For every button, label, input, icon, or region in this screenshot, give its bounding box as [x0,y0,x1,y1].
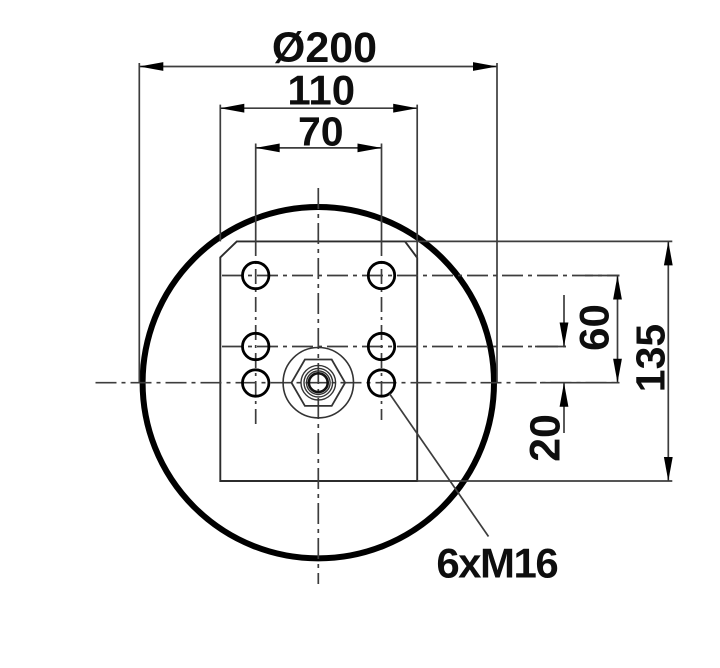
stud bore circle [309,373,328,392]
thread circle outer [301,365,336,400]
flange outer circle Ø200 [143,207,494,558]
dim 20 line upper segment [563,295,565,347]
svg-text:110: 110 [287,67,355,114]
dim 70 line [256,147,382,149]
dim Ø200 line [139,66,497,68]
svg-text:70: 70 [298,109,344,155]
hole column centerline left (also 70 extension) [255,144,257,242]
bolt hole mid-right [368,333,394,359]
dim 110 arrow left [220,104,244,113]
dim 135 line [667,241,669,481]
vertical centerline (main axis) [317,188,319,584]
dim 60 arrow top [613,276,622,300]
leader line to bolt hole [390,394,489,537]
central boss circle [283,348,353,418]
mounting plate outline (chamfered top corners) [220,241,417,481]
dim 110 arrow right [393,104,417,113]
dim Ø200 extension line right [496,63,498,383]
dim 20 line lower segment [563,383,565,433]
centerline row 1 (top holes) [222,275,620,277]
dim 110 extension line left [219,105,221,242]
bolt hole mid-left [243,333,269,359]
dim 70 arrow left [256,144,280,153]
svg-text:Ø200: Ø200 [272,24,377,72]
bolt hole top-left [243,262,269,288]
dim 135 extension line top (plate top edge extended) [405,240,672,242]
dim 60 line [617,276,619,383]
hole column centerline right (also 70 extension) [381,144,383,242]
bolt hole bottom-right [368,370,394,396]
svg-text:60: 60 [571,304,618,351]
dim 135 arrow bottom [664,457,673,481]
dim 70 arrow right [358,144,382,153]
dim 20 arrow upper (points down to row2) [560,323,569,347]
centerline row 2 (middle holes) [222,346,566,348]
dim 60 arrow bottom [613,359,622,383]
hex nut [292,360,346,406]
dim 110 line [220,107,417,109]
svg-text:135: 135 [628,324,674,392]
thread circle inner [307,371,331,395]
thread circle middle [304,368,333,397]
dim 135 arrow top [664,241,673,265]
dim Ø200 arrow right [473,62,497,71]
bolt hole top-right [368,262,394,288]
dim Ø200 arrow left [139,62,163,71]
dim 20 arrow lower (points up to centerline) [560,383,569,407]
svg-text:6xM16: 6xM16 [436,540,557,587]
dim 135 extension line bottom (plate bottom edge extended) [417,480,672,482]
dim 110 extension line right [416,105,418,258]
horizontal centerline (main axis) [96,382,620,384]
svg-text:20: 20 [522,414,570,462]
bolt hole bottom-left [243,370,269,396]
dim Ø200 extension line left [138,63,140,383]
